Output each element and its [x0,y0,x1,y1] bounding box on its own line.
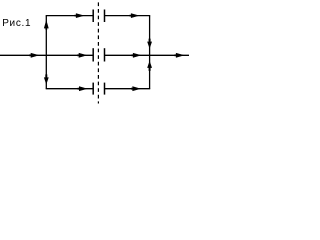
current arrow A7 (top-right segment, rightward) [130,13,140,18]
wire: bottom branch right segment [105,88,150,90]
wire: middle-left input from left edge to C2 left plate [0,54,93,56]
current arrow A1 (input wire, rightward) [29,53,39,58]
capacitor C3 (bottom) [93,83,104,95]
wire: middle-right output segment [105,54,189,56]
current arrow A6 (bottom branch, rightward) [78,86,88,91]
current arrow A4 (top branch, rightward) [75,13,85,18]
current arrow A5 (middle branch, rightward) [77,53,87,58]
wire: top branch left segment [46,15,93,17]
capacitor C2 (middle) [93,48,104,61]
current arrow A2 (left bus, upward) [44,20,49,30]
current arrow A10 (right bus upper, downward) [147,39,152,49]
current arrow A9 (bottom-right segment, rightward) [131,86,141,91]
wire: right vertical bus [149,16,151,89]
wire: top branch right segment [105,15,150,17]
wire: bottom branch left segment [46,88,93,90]
current arrow A3 (left bus, downward) [44,74,49,84]
wire: left vertical bus [45,16,47,89]
svg-text:Рис.1: Рис.1 [2,18,31,29]
current arrow A11 (right bus lower, upward) [147,61,152,71]
current arrow A12 (output wire, rightward) [175,53,185,58]
capacitor C1 (top) [93,10,104,23]
current arrow A8 (middle-right segment, rightward) [132,53,142,58]
dashed section line through capacitor gaps [97,2,99,103]
